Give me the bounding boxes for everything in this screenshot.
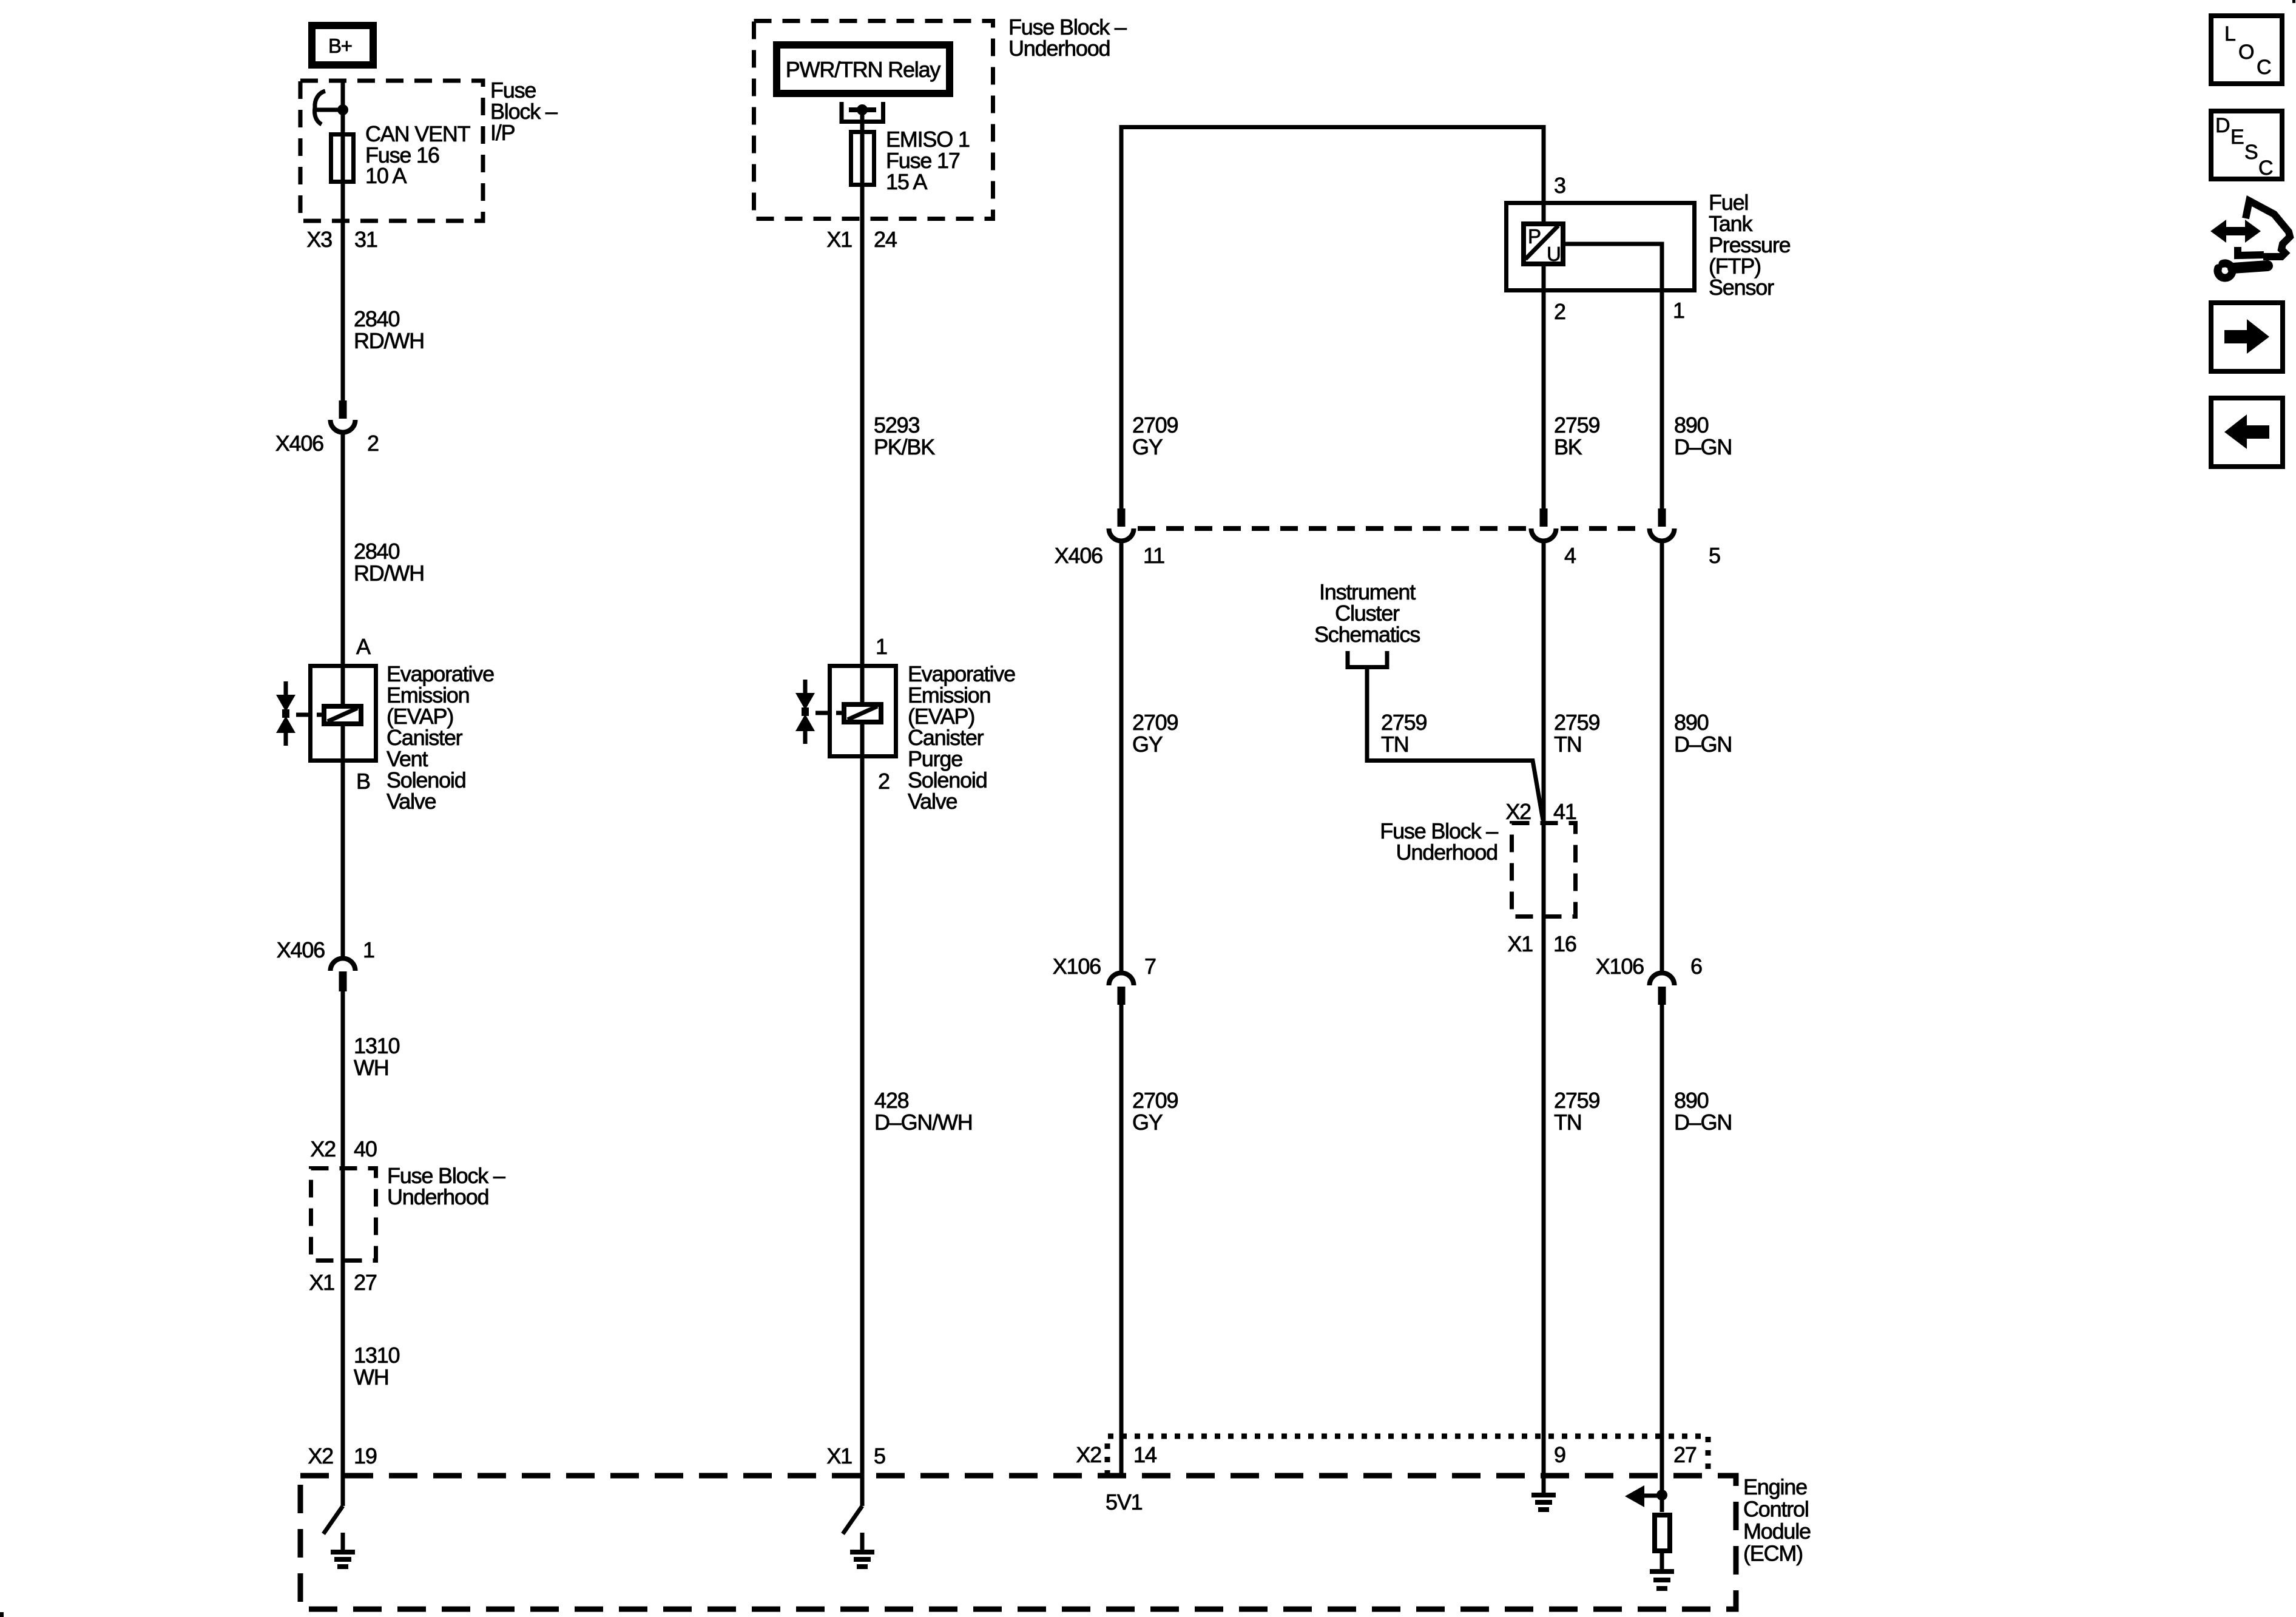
svg-text:2: 2 (878, 769, 890, 794)
ground ECM col2 (860, 1533, 865, 1551)
solenoid coil (324, 706, 361, 724)
svg-text:428: 428 (874, 1088, 909, 1113)
scan artifact bottom-left (0, 1612, 4, 1617)
svg-text:31: 31 (354, 227, 377, 252)
svg-text:1310: 1310 (354, 1033, 399, 1058)
svg-text:Underhood: Underhood (1396, 840, 1497, 865)
wire through solenoid (341, 664, 345, 704)
in-line connector X406 pin 2 (339, 400, 347, 419)
svg-text:A: A (356, 634, 371, 659)
signal tap arrow (1641, 1494, 1662, 1498)
wire resistor to ground (1660, 1551, 1664, 1569)
svg-text:X106: X106 (1596, 954, 1644, 979)
svg-text:S: S (2244, 141, 2258, 164)
svg-text:2759: 2759 (1554, 710, 1599, 735)
svg-text:L: L (2224, 22, 2235, 46)
svg-text:41: 41 (1553, 799, 1576, 824)
svg-text:X106: X106 (1053, 954, 1101, 979)
svg-text:Valve: Valve (387, 789, 436, 814)
svg-text:RD/WH: RD/WH (354, 328, 424, 353)
svg-text:X2: X2 (308, 1443, 333, 1468)
pull-up resistor (1655, 1515, 1670, 1551)
EVAP canister vent solenoid valve box (311, 666, 376, 761)
svg-text:P: P (1528, 225, 1541, 248)
svg-text:2: 2 (1554, 299, 1565, 324)
svg-text:D–GN: D–GN (1674, 1110, 1732, 1135)
svg-text:5V1: 5V1 (1106, 1490, 1143, 1514)
connector X406 dashed line (1138, 526, 1528, 531)
relay output terminal bracket (842, 102, 883, 122)
svg-text:2: 2 (367, 431, 379, 456)
svg-text:2709: 2709 (1132, 1088, 1178, 1113)
svg-text:10 A: 10 A (365, 163, 407, 188)
svg-text:B: B (356, 769, 370, 794)
svg-text:Schematics: Schematics (1314, 622, 1420, 647)
wire from instrument cluster, label 2759 TN (1367, 667, 1543, 820)
icon forward arrow box (2211, 303, 2283, 371)
svg-text:X1: X1 (309, 1270, 334, 1295)
wire X406-1 to fuse block, label 1310 WH (341, 991, 345, 1506)
EVAP canister purge solenoid valve box (830, 666, 896, 757)
svg-text:X406: X406 (275, 431, 323, 456)
svg-text:GY: GY (1132, 434, 1163, 459)
wire X406-5 to X106-6 (1660, 541, 1664, 972)
svg-text:9: 9 (1554, 1442, 1565, 1467)
svg-text:Valve: Valve (908, 789, 957, 814)
svg-text:Engine: Engine (1743, 1474, 1807, 1499)
svg-text:2759: 2759 (1554, 1088, 1599, 1113)
node junction at pin27 (1656, 1490, 1667, 1501)
svg-text:GY: GY (1132, 732, 1163, 757)
svg-text:Underhood: Underhood (387, 1184, 488, 1209)
ECM connector X2 dotted box (1107, 1436, 1708, 1476)
svg-text:40: 40 (354, 1136, 377, 1161)
fuse block underhood dashed box (top) (754, 21, 993, 219)
svg-text:PK/BK: PK/BK (874, 434, 935, 459)
wire X106-7 to ECM pin14, label 2709 GY (1119, 1005, 1124, 1476)
svg-text:X2: X2 (310, 1136, 336, 1161)
svg-text:5: 5 (1709, 543, 1720, 568)
fuse F17 EMISO 1 15A (851, 132, 874, 185)
ECM driver switch (low side) col2 (843, 1506, 862, 1534)
svg-text:X406: X406 (277, 937, 325, 962)
svg-text:14: 14 (1133, 1442, 1156, 1467)
svg-text:5293: 5293 (874, 413, 919, 437)
svg-text:2709: 2709 (1132, 710, 1178, 735)
fuse block underhood pass-through dashed box (311, 1169, 376, 1261)
wire P/U right to pin 1 (1563, 244, 1662, 510)
svg-text:2840: 2840 (354, 306, 399, 331)
svg-text:Control: Control (1743, 1497, 1809, 1522)
svg-text:6: 6 (1690, 954, 1702, 979)
svg-text:TN: TN (1554, 732, 1582, 757)
svg-text:D–GN: D–GN (1674, 434, 1732, 459)
ground ECM pin9 (1542, 1476, 1546, 1494)
svg-text:RD/WH: RD/WH (354, 561, 424, 586)
in-line connector X106 pin 7 (1109, 973, 1134, 986)
valve symbol (803, 680, 808, 694)
svg-text:11: 11 (1143, 543, 1164, 568)
wire X406-11 to X106-7 (1119, 541, 1124, 972)
solenoid coil (844, 704, 881, 722)
svg-text:X1: X1 (826, 227, 852, 252)
fuse F16 CAN VENT 10A (331, 135, 354, 182)
svg-text:4: 4 (1564, 543, 1576, 568)
ECM driver switch (low side) col1 (323, 1506, 343, 1534)
svg-text:27: 27 (354, 1270, 377, 1295)
svg-text:(ECM): (ECM) (1743, 1541, 1803, 1566)
svg-text:16: 16 (1553, 931, 1576, 956)
wire purge solenoid to ECM, label 428 D-GN/WH (860, 756, 865, 1506)
svg-text:D–GN/WH: D–GN/WH (874, 1110, 973, 1135)
svg-text:2709: 2709 (1132, 413, 1178, 437)
engine control module ECM dashed box (300, 1476, 1736, 1609)
svg-text:890: 890 (1674, 413, 1709, 437)
wire B+ feed to fuse 16 (341, 81, 345, 402)
svg-text:X1: X1 (826, 1443, 852, 1468)
connector X406 pin 5 (1658, 508, 1666, 527)
svg-text:O: O (2238, 41, 2254, 64)
svg-text:D: D (2215, 114, 2229, 137)
svg-text:I/P: I/P (490, 120, 515, 145)
svg-text:2759: 2759 (1381, 710, 1427, 735)
svg-text:1310: 1310 (354, 1343, 399, 1368)
icon back arrow box (2211, 398, 2283, 467)
connector X406 pin 4 (1540, 508, 1548, 527)
wire X406-2 to solenoid, label 2840 RD/WH (341, 432, 345, 664)
icon adjust/linkage wrench (2210, 220, 2261, 243)
svg-text:890: 890 (1674, 710, 1709, 735)
svg-text:15 A: 15 A (886, 169, 927, 194)
connector X406 pin 11 (1118, 508, 1126, 527)
wire 2709 GY from FTP pin3 loop (1121, 127, 1544, 510)
svg-text:BK: BK (1554, 434, 1582, 459)
in-line connector X106 pin 6 (1650, 973, 1675, 986)
svg-text:X2: X2 (1505, 799, 1531, 824)
svg-text:X3: X3 (306, 227, 332, 252)
ground ECM col1 (341, 1533, 345, 1551)
svg-text:WH: WH (354, 1055, 389, 1080)
svg-text:X406: X406 (1055, 543, 1102, 568)
fuse block I/P dashed box (300, 81, 483, 221)
svg-text:1: 1 (876, 634, 887, 659)
svg-text:X1: X1 (1507, 931, 1533, 956)
svg-text:X2: X2 (1076, 1442, 1101, 1467)
fuse block underhood pass-through dashed box (mid) (1512, 823, 1576, 917)
svg-text:24: 24 (874, 227, 897, 252)
valve symbol (284, 681, 288, 695)
wire X406-4 down to ECM pin9 (1542, 541, 1546, 1476)
svg-text:WH: WH (354, 1365, 389, 1389)
svg-text:2759: 2759 (1554, 413, 1599, 437)
svg-text:TN: TN (1554, 1110, 1582, 1135)
svg-text:Underhood: Underhood (1008, 36, 1110, 61)
svg-text:1: 1 (363, 937, 374, 962)
relay PWR/TRN Relay (777, 45, 950, 93)
svg-text:GY: GY (1132, 1110, 1163, 1135)
svg-text:890: 890 (1674, 1088, 1709, 1113)
wire relay to fuse 17 (860, 110, 865, 664)
svg-text:D–GN: D–GN (1674, 732, 1732, 757)
svg-text:1: 1 (1673, 298, 1684, 323)
svg-text:PWR/TRN Relay: PWR/TRN Relay (786, 57, 941, 82)
icon LOC box (2211, 16, 2282, 84)
svg-text:7: 7 (1144, 954, 1156, 979)
svg-text:19: 19 (354, 1443, 377, 1468)
bus tap hook at fuse 16 (314, 91, 325, 124)
ground ECM pin27 (1650, 1569, 1674, 1574)
wire solenoid B to X406 pin 1 (341, 760, 345, 957)
wire P/U to pin 2 (1542, 264, 1546, 510)
off-page bracket (1348, 651, 1387, 667)
svg-text:3: 3 (1554, 173, 1565, 198)
svg-text:27: 27 (1673, 1442, 1697, 1467)
FTP transducer P/U symbol (1524, 224, 1563, 264)
svg-text:TN: TN (1381, 732, 1409, 757)
icon DESC box (2211, 111, 2282, 179)
wire through purge solenoid (860, 664, 865, 704)
fuel tank pressure FTP sensor box (1507, 203, 1695, 291)
svg-text:U: U (1547, 243, 1561, 265)
svg-text:Sensor: Sensor (1709, 275, 1774, 300)
svg-text:2840: 2840 (354, 539, 399, 564)
svg-text:C: C (2257, 56, 2271, 79)
wire X106-6 to ECM pin27, label 890 D-GN (1660, 1005, 1664, 1512)
scan artifact top-right (2292, 0, 2295, 3)
svg-text:Module: Module (1743, 1519, 1811, 1544)
svg-text:C: C (2258, 157, 2273, 180)
svg-text:5: 5 (874, 1443, 885, 1468)
svg-text:E: E (2230, 126, 2244, 149)
svg-text:B+: B+ (328, 35, 352, 57)
in-line connector X406 pin 1 (331, 958, 356, 971)
power feed B+ (312, 25, 373, 65)
